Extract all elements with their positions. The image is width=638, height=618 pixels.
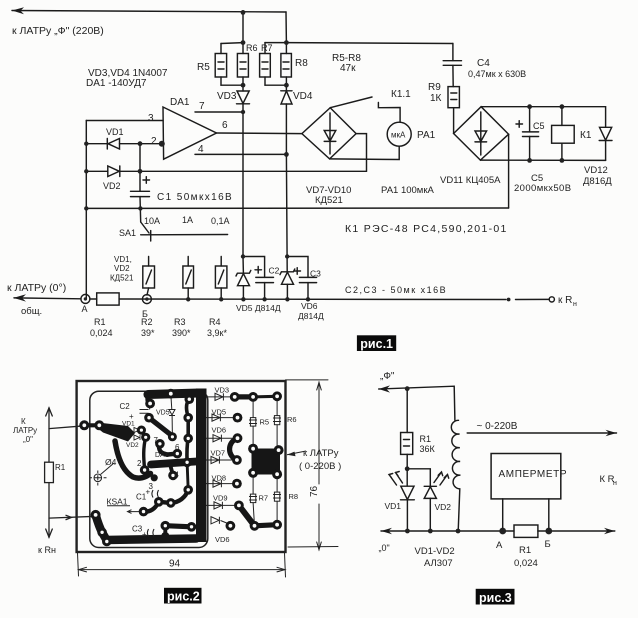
svg-text:+: + xyxy=(142,530,147,539)
svg-text:АМПЕРМЕТР: АМПЕРМЕТР xyxy=(499,469,568,480)
svg-text:2000мкх50В: 2000мкх50В xyxy=(514,183,571,194)
svg-text:К1.1: К1.1 xyxy=(391,89,411,100)
svg-text:РА1: РА1 xyxy=(417,130,436,141)
svg-text:39*: 39* xyxy=(141,328,155,338)
svg-text:рис.3: рис.3 xyxy=(479,591,512,605)
svg-text:76: 76 xyxy=(309,485,320,497)
svg-text:VD4: VD4 xyxy=(293,91,313,102)
svg-text:А: А xyxy=(496,540,503,551)
svg-text:К1: К1 xyxy=(580,130,592,141)
svg-text:рис.1: рис.1 xyxy=(360,337,393,351)
svg-text:VD6: VD6 xyxy=(215,535,230,544)
svg-text:DA1 -140УД7: DA1 -140УД7 xyxy=(86,78,147,89)
svg-text:R6: R6 xyxy=(246,43,258,53)
svg-text:VD5 Д814Д: VD5 Д814Д xyxy=(236,303,281,313)
svg-text:R2: R2 xyxy=(141,317,153,327)
svg-text:VD1,: VD1, xyxy=(114,255,132,264)
svg-text:VD11 КЦ405А: VD11 КЦ405А xyxy=(440,175,501,186)
svg-text:2: 2 xyxy=(151,136,157,147)
svg-text:94: 94 xyxy=(169,559,181,570)
svg-text:1А: 1А xyxy=(182,215,193,225)
svg-text:VD9: VD9 xyxy=(213,494,228,503)
svg-text:R4: R4 xyxy=(209,317,221,327)
svg-text:3: 3 xyxy=(148,113,154,124)
svg-text:R6: R6 xyxy=(287,415,297,424)
svg-text:R7: R7 xyxy=(261,43,273,53)
svg-text:к ЛАТРу „Ф" (220В): к ЛАТРу „Ф" (220В) xyxy=(12,25,104,37)
svg-text:R9: R9 xyxy=(428,82,441,93)
svg-text:к R: к R xyxy=(558,295,572,306)
svg-text:390*: 390* xyxy=(172,328,191,338)
svg-text:0,024: 0,024 xyxy=(514,558,538,569)
svg-text:VD1: VD1 xyxy=(122,421,135,428)
svg-text:R1: R1 xyxy=(420,434,432,444)
svg-text:общ.: общ. xyxy=(21,306,42,317)
svg-text:6: 6 xyxy=(175,443,180,452)
svg-text:VD2: VD2 xyxy=(435,502,452,512)
svg-text:3,9к*: 3,9к* xyxy=(207,328,227,338)
svg-text:VD1: VD1 xyxy=(106,127,124,137)
svg-text:R7: R7 xyxy=(259,494,269,503)
svg-text:Д816Д: Д816Д xyxy=(583,176,612,187)
svg-text:КSA1: КSA1 xyxy=(107,497,128,507)
svg-text:1К: 1К xyxy=(430,93,442,104)
svg-text:R1: R1 xyxy=(519,545,531,556)
svg-text:R8: R8 xyxy=(295,58,308,69)
svg-text:DA1: DA1 xyxy=(155,452,169,459)
svg-text:КД521: КД521 xyxy=(110,274,134,283)
svg-text:10А: 10А xyxy=(144,216,160,226)
svg-text:C2: C2 xyxy=(120,402,131,411)
svg-text:VD5: VD5 xyxy=(156,410,170,417)
svg-text:0,024: 0,024 xyxy=(90,328,113,338)
svg-text:7: 7 xyxy=(154,436,159,445)
svg-text:7: 7 xyxy=(199,101,205,112)
svg-text:мкА: мкА xyxy=(391,131,406,140)
svg-text:к ЛАТРу (0°): к ЛАТРу (0°) xyxy=(7,282,66,294)
svg-text:2: 2 xyxy=(137,459,142,468)
svg-text:„0": „0" xyxy=(23,435,33,444)
svg-text:VD6: VD6 xyxy=(212,426,227,435)
svg-text:VD2: VD2 xyxy=(103,181,121,191)
svg-text:R1: R1 xyxy=(94,317,106,327)
svg-text:0,47мк х 630В: 0,47мк х 630В xyxy=(468,69,526,79)
svg-text:4: 4 xyxy=(175,471,180,480)
svg-text:„Ф": „Ф" xyxy=(380,371,395,382)
svg-text:R5: R5 xyxy=(260,418,270,427)
svg-text:R8: R8 xyxy=(289,492,299,501)
svg-text:C1 50мкх16В: C1 50мкх16В xyxy=(157,192,233,203)
svg-text:VD1-VD2: VD1-VD2 xyxy=(415,546,455,557)
svg-text:C2,C3 - 50мк х16В: C2,C3 - 50мк х16В xyxy=(345,285,447,295)
svg-text:к ЛАТРу: к ЛАТРу xyxy=(303,448,339,459)
svg-text:К: К xyxy=(21,417,26,426)
svg-text:К1 РЭС-48 РС4,590,201-01: К1 РЭС-48 РС4,590,201-01 xyxy=(345,223,508,235)
svg-text:36К: 36К xyxy=(420,444,436,454)
svg-text:C5: C5 xyxy=(533,121,545,131)
svg-text:VD5: VD5 xyxy=(212,408,227,417)
svg-text:рис.2: рис.2 xyxy=(167,590,200,604)
svg-text:АЛ307: АЛ307 xyxy=(424,558,453,569)
svg-text:н: н xyxy=(613,480,617,487)
svg-text:КД521: КД521 xyxy=(315,195,343,206)
svg-text:VD6: VD6 xyxy=(301,301,318,311)
svg-text:R5: R5 xyxy=(197,62,210,73)
svg-text:SA1: SA1 xyxy=(119,228,136,238)
svg-text:R1: R1 xyxy=(55,463,66,472)
svg-text:~ 0-220В: ~ 0-220В xyxy=(477,421,518,432)
svg-text:C4: C4 xyxy=(477,58,490,69)
svg-text:„0": „0" xyxy=(379,543,390,553)
svg-text:VD8: VD8 xyxy=(212,474,227,483)
svg-text:н: н xyxy=(573,301,577,308)
svg-text:C2: C2 xyxy=(269,266,280,276)
svg-text:VD2: VD2 xyxy=(126,442,139,449)
svg-text:к Rн: к Rн xyxy=(38,545,56,555)
svg-text:DA1: DA1 xyxy=(170,97,190,108)
svg-text:ЛАТРу: ЛАТРу xyxy=(13,426,37,435)
svg-text:R3: R3 xyxy=(174,317,186,327)
svg-text:VD3: VD3 xyxy=(217,91,237,102)
svg-text:VD2: VD2 xyxy=(114,264,130,273)
svg-text:Ø4: Ø4 xyxy=(105,457,117,467)
svg-text:А: А xyxy=(82,304,88,314)
svg-text:0,1А: 0,1А xyxy=(211,216,230,226)
svg-text:VD7: VD7 xyxy=(211,449,226,458)
svg-text:4: 4 xyxy=(198,144,204,155)
svg-text:VD3: VD3 xyxy=(215,386,230,395)
svg-text:C3: C3 xyxy=(310,269,321,279)
svg-text:РА1 100мкА: РА1 100мкА xyxy=(381,185,434,196)
svg-text:VD12: VD12 xyxy=(584,165,608,176)
svg-text:47к: 47к xyxy=(340,63,356,74)
svg-text:6: 6 xyxy=(222,120,228,131)
svg-text:+: + xyxy=(146,488,151,497)
svg-text:( 0-220В ): ( 0-220В ) xyxy=(299,461,341,472)
svg-text:VD1: VD1 xyxy=(385,501,402,511)
svg-text:Б: Б xyxy=(545,539,551,550)
svg-text:Д814Д: Д814Д xyxy=(298,311,324,321)
